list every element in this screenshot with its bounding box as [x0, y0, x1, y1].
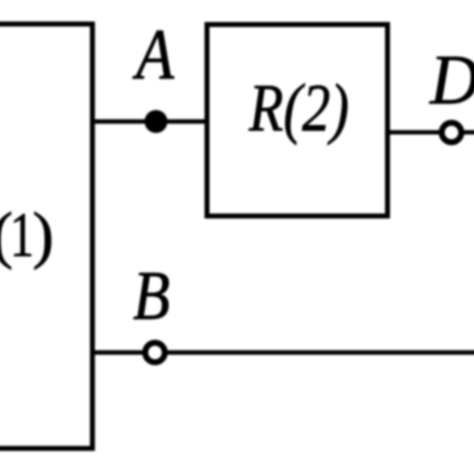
svg-text:A: A: [133, 15, 175, 95]
node B terminal (open circle): [145, 343, 165, 363]
block (1) (left box, partially cropped): [0, 24, 92, 448]
svg-text:1: 1: [10, 199, 34, 270]
wire from block 1 through node B to right edge: [90, 350, 474, 354]
node D terminal (open circle): [442, 123, 462, 143]
svg-text:): ): [33, 199, 54, 270]
block R(2): [207, 25, 388, 217]
svg-text:R(2): R(2): [248, 70, 349, 146]
node A junction dot: [145, 110, 168, 133]
wire from R(2) to node D: [386, 130, 474, 134]
svg-text:B: B: [133, 258, 170, 335]
wire from block 1 to block R(2): [90, 119, 209, 123]
svg-text:D: D: [429, 42, 474, 120]
